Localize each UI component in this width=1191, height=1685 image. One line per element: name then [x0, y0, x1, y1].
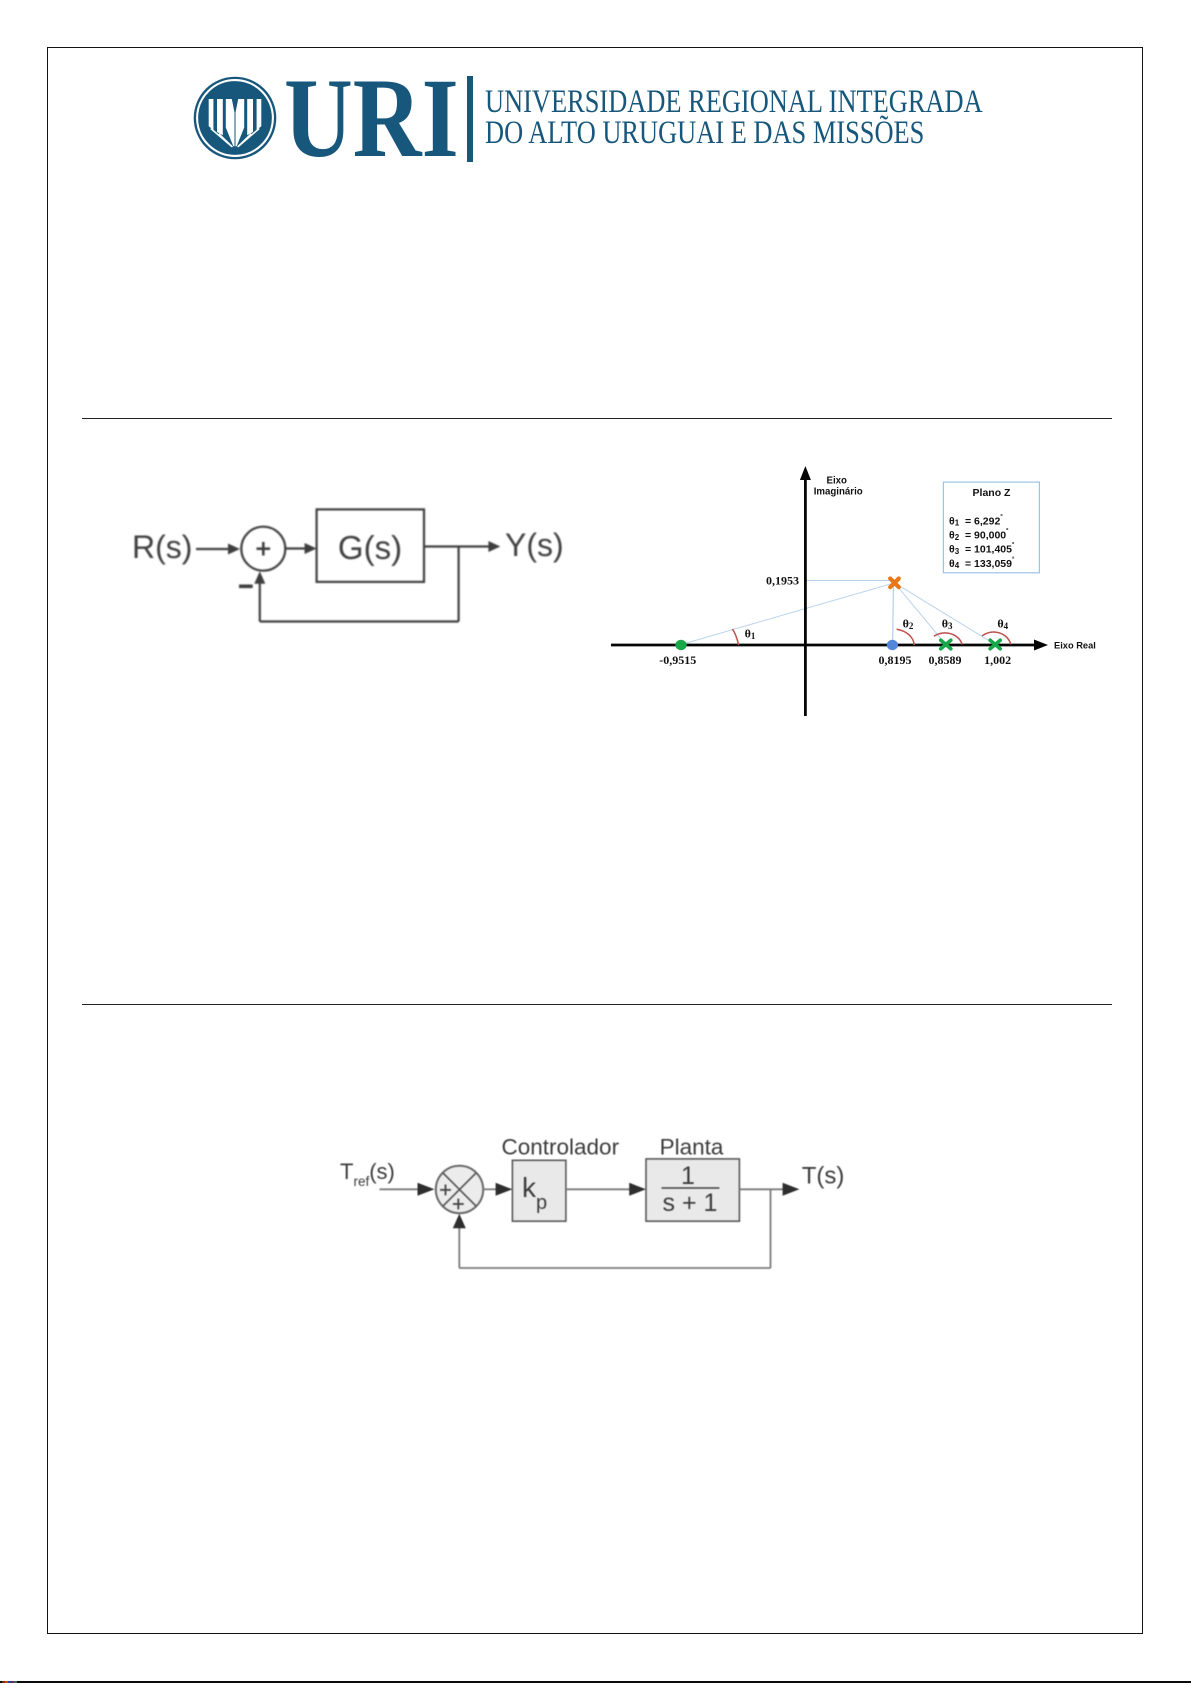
label Controlador: [502, 1135, 620, 1160]
label Y(s): [505, 527, 564, 563]
URI logo emblem: [193, 76, 277, 160]
imaginary axis: [800, 466, 811, 716]
open book: white pages: [209, 99, 262, 146]
label 1,002: [984, 653, 1011, 667]
URI wordmark: [284, 62, 459, 175]
label R(s): [132, 529, 192, 565]
summing junction S2: [436, 1166, 483, 1213]
construction line to 0.8589: [895, 583, 946, 645]
feedback wire up to summing junction: [458, 1226, 460, 1268]
block G(s): [317, 509, 424, 582]
construction line 0,1953 level: [805, 580, 894, 582]
legend box Plano Z: [943, 482, 1039, 573]
feedback wire bottom: [459, 1267, 770, 1269]
label kp: [522, 1172, 547, 1214]
pole marker -0.9515 (green dot): [675, 640, 686, 650]
real axis: [611, 640, 1048, 651]
arrowhead into summing junction: [228, 544, 240, 555]
arrowhead into kp: [496, 1183, 513, 1196]
svg-text:θ4 = 133,059˚: θ4 = 133,059˚: [949, 556, 1015, 570]
svg-text:θ3 = 101,405˚: θ3 = 101,405˚: [949, 542, 1015, 556]
Block diagram 1 : R(s) -> sum -> G(s) -> Y(s): [110, 495, 580, 635]
label -0,9515: [659, 653, 696, 667]
arrowhead to Y(s): [488, 541, 500, 552]
wire summing junction to kp: [483, 1188, 497, 1190]
feedback wire up to summing junction: [259, 582, 261, 622]
arrowhead up into summing junction: [453, 1214, 466, 1228]
plus sign: [257, 542, 271, 556]
svg-text:1,002: 1,002: [984, 653, 1011, 667]
svg-text:-0,9515: -0,9515: [659, 653, 696, 667]
pole marker 0.8195+0.1953i (orange X): [890, 579, 899, 588]
label s+1 denominator: [663, 1189, 718, 1217]
svg-text:θ1: θ1: [745, 627, 756, 642]
label 1 numerator: [681, 1162, 695, 1190]
university name: [485, 87, 983, 151]
svg-text:1: 1: [681, 1162, 695, 1190]
wire Planta to output: [739, 1188, 786, 1190]
svg-text:Eixo: Eixo: [827, 476, 848, 487]
angle arc theta4: [982, 632, 1011, 645]
summing junction S1: [241, 527, 285, 571]
wire R(s) to summing junction: [196, 548, 231, 550]
arrowhead into G(s): [305, 543, 317, 554]
construction line to -0.9515: [683, 583, 895, 644]
minus sign: [239, 584, 253, 588]
svg-text:Controlador: Controlador: [502, 1135, 620, 1160]
angle arc theta2: [897, 629, 915, 645]
svg-text:θ4: θ4: [997, 617, 1008, 632]
svg-text:T(s): T(s): [802, 1162, 845, 1189]
label theta3: [942, 617, 953, 632]
label 0,1953: [766, 574, 799, 588]
svg-text:0,1953: 0,1953: [766, 574, 799, 588]
angle arc theta3: [934, 633, 962, 645]
wire kp to Planta: [566, 1188, 632, 1190]
wire summing junction to block G(s): [285, 547, 306, 549]
label theta1: [745, 627, 756, 642]
X cross of summing junction: [443, 1173, 477, 1207]
arrowhead up into summing junction: [254, 571, 265, 584]
svg-text:Imaginário: Imaginário: [814, 487, 863, 498]
fraction bar: [662, 1187, 720, 1189]
svg-text:0,8195: 0,8195: [879, 653, 912, 667]
label Eixo Imaginario: [814, 476, 863, 498]
arrowhead to T(s): [783, 1183, 800, 1196]
separator rule 2: [82, 1004, 1112, 1005]
separator rule 1: [82, 418, 1112, 419]
svg-text:G(s): G(s): [338, 529, 402, 566]
block kp (Controlador): [512, 1160, 566, 1221]
label G(s): [338, 529, 402, 566]
zero marker 1.002 (green X): [990, 640, 1000, 649]
wire Tref to summing junction: [380, 1188, 422, 1190]
chart text: [814, 476, 1096, 651]
plus sign left input: [440, 1185, 451, 1196]
svg-text:R(s): R(s): [132, 529, 192, 565]
svg-text:0,8589: 0,8589: [929, 653, 962, 667]
label T(s): [802, 1162, 845, 1189]
svg-text:θ3: θ3: [942, 617, 953, 632]
svg-text:Planta: Planta: [660, 1135, 724, 1160]
block Planta 1/(s+1): [646, 1159, 739, 1221]
label Eixo Real: [1054, 641, 1096, 651]
label theta4: [997, 617, 1008, 632]
pole marker 0.8195 (blue dot): [887, 640, 898, 650]
svg-text:s + 1: s + 1: [663, 1189, 718, 1217]
label theta2: [903, 617, 914, 632]
construction line to 1.002: [895, 583, 996, 645]
angle arc theta1: [733, 629, 739, 645]
wire G(s) to output: [424, 545, 489, 547]
svg-text:Tref(s): Tref(s): [340, 1159, 395, 1189]
divider bar: [467, 76, 473, 162]
arrowhead into Planta: [629, 1183, 646, 1196]
construction line to 0.8195: [892, 583, 895, 645]
label 0,8589: [929, 653, 962, 667]
svg-text:Eixo Real: Eixo Real: [1054, 641, 1096, 651]
svg-text:θ2: θ2: [903, 617, 914, 632]
zero marker 0.8589 (green X): [941, 640, 951, 649]
plus sign bottom input: [453, 1199, 464, 1210]
label Planta: [660, 1135, 724, 1160]
feedback wire bottom: [260, 620, 459, 622]
svg-text:Plano Z: Plano Z: [973, 487, 1012, 499]
Z-plane chart: [600, 455, 1120, 725]
feedback wire down from output node: [770, 1189, 772, 1268]
Block diagram 2 : Tref(s) -> sum -> kp -> 1/(s+1) -> T(s): [330, 1125, 860, 1285]
feedback wire down from output node: [458, 547, 460, 622]
svg-text:Y(s): Y(s): [505, 527, 564, 563]
arrowhead into summing junction: [418, 1183, 435, 1196]
label Tref(s): [340, 1159, 395, 1189]
bottom rule: [0, 1681, 1191, 1683]
label 0,8195: [879, 653, 912, 667]
